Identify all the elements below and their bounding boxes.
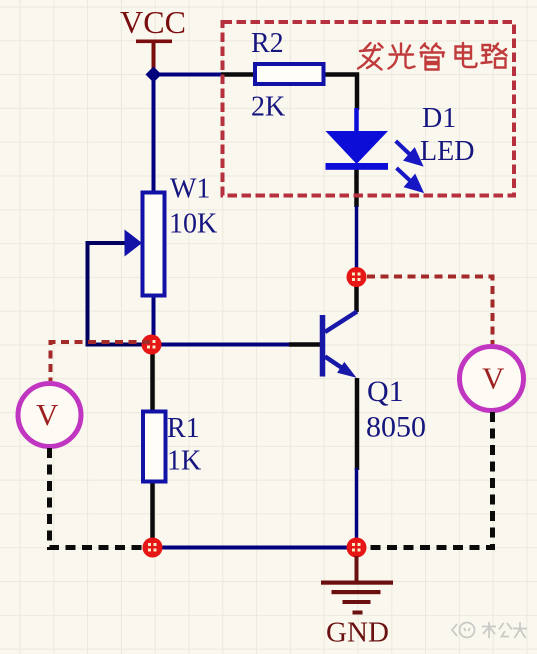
svg-text:R1: R1 — [167, 413, 200, 444]
svg-text:Q1: Q1 — [367, 375, 404, 408]
wire: wiper arm left segment (dark) — [88, 243, 152, 345]
wire: test point to Q1 collector (black) — [354, 277, 359, 312]
wire: region border to R2 pin 1 (black) — [221, 72, 255, 77]
LED D1 anode pin stub (blue) — [354, 108, 359, 132]
svg-text:LED: LED — [420, 136, 474, 167]
probe wire: collector node to right voltmeter (red dashed) — [367, 277, 493, 345]
wire: D1 cathode down through region border (black) — [354, 169, 359, 207]
svg-text:W1: W1 — [170, 174, 210, 205]
char 路 — [482, 44, 507, 68]
region box 发光管电路 — [223, 22, 515, 196]
wire: Q1 emitter down (black) — [355, 378, 360, 470]
wire: emitter to ground node (navy) — [355, 468, 359, 548]
power symbol VCC — [136, 40, 172, 71]
svg-text:V: V — [36, 397, 59, 432]
probe wire: base node to left voltmeter (red dashed) — [51, 342, 151, 381]
probe wire: left voltmeter to bottom rail (black dashed) — [50, 448, 146, 548]
wire: R2 pin 2 to corner, down to D1 (black) — [323, 75, 357, 111]
probe wire: right voltmeter to ground node (black dashed) — [364, 412, 493, 548]
svg-text:8050: 8050 — [366, 411, 426, 444]
LED D1 symbol — [326, 131, 389, 170]
svg-text:V: V — [482, 361, 505, 396]
test point: base node — [142, 335, 162, 355]
resistor R1 — [143, 412, 166, 482]
svg-text:D1: D1 — [422, 103, 456, 134]
resistor R2 — [255, 64, 324, 84]
ground symbol — [321, 556, 393, 615]
LED light emission arrows — [396, 141, 421, 190]
transistor Q1 — [323, 312, 358, 378]
wire: W1 top pin from VCC node (navy) — [152, 75, 156, 194]
svg-text:10K: 10K — [169, 209, 217, 240]
svg-text:2K: 2K — [251, 92, 285, 123]
svg-text:R2: R2 — [251, 28, 284, 59]
test point: ground node — [347, 538, 367, 558]
test point: collector node — [347, 267, 367, 287]
svg-text:VCC: VCC — [120, 4, 186, 40]
svg-text:GND: GND — [326, 617, 389, 649]
voltmeter V right — [460, 347, 524, 411]
wire: base node to Q1 base (navy then black) — [152, 343, 290, 347]
wire: bottom rail (navy) — [153, 546, 357, 550]
voltmeter V left — [18, 384, 81, 447]
char 管 — [421, 44, 445, 70]
wire: down to collector test point (navy) — [355, 206, 359, 277]
region title 发光管电路 (drawn strokes) — [358, 43, 507, 70]
test point: bottom-left node — [143, 538, 163, 558]
wire: R1 pin 2 down to bottom rail (black) — [150, 481, 155, 541]
char 光 — [389, 44, 415, 69]
char 电 — [456, 43, 477, 67]
junction at VCC node — [146, 67, 162, 83]
svg-text:1K: 1K — [167, 446, 201, 477]
wire: VCC junction to region border (navy) — [154, 73, 224, 77]
potentiometer W1 — [125, 193, 165, 296]
wire: W1 bottom pin to base node (navy) — [152, 295, 156, 345]
char 发 — [358, 43, 383, 70]
wire: base node down to R1 pin 1 (black) — [150, 345, 155, 413]
watermark 木公大 — [452, 622, 527, 638]
